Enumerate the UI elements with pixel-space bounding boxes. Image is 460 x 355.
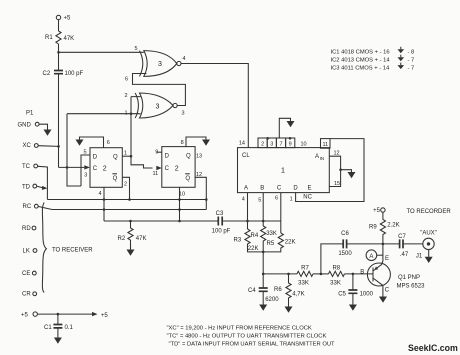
svg-text:J1: J1 bbox=[416, 254, 423, 260]
node junction R1/C2/gate input bbox=[57, 51, 60, 54]
svg-text:15: 15 bbox=[334, 181, 340, 187]
svg-text:C7: C7 bbox=[398, 234, 406, 240]
node R3/R5 tie bbox=[262, 251, 265, 254]
wire to gate U3a pin 5 bbox=[59, 51, 144, 53]
ground at C4 bbox=[262, 303, 264, 305]
svg-text:1: 1 bbox=[125, 111, 128, 117]
svg-text:MPS 6523: MPS 6523 bbox=[397, 283, 426, 289]
FF2 clock arrow bbox=[156, 166, 162, 170]
wire FF1 pin 6 to ground bbox=[80, 137, 104, 148]
svg-text:Q1 PNP: Q1 PNP bbox=[398, 275, 420, 281]
svg-text:A: A bbox=[315, 154, 319, 160]
transistor Q1 PNP MPS 6523 bbox=[360, 244, 425, 296]
wire pin 11 loop to NC pin 1 bbox=[296, 139, 364, 202]
ground at FF2 pin 8 bbox=[202, 140, 210, 146]
svg-text:3: 3 bbox=[84, 172, 87, 178]
svg-text:2: 2 bbox=[125, 93, 128, 99]
wire IC top ground bracket bbox=[279, 118, 290, 138]
svg-text:100 pF: 100 pF bbox=[65, 71, 84, 77]
wire C6 to emitter node bbox=[347, 243, 383, 245]
connector pin LK bbox=[23, 249, 37, 255]
svg-text:R6: R6 bbox=[274, 287, 282, 293]
jack J1 AUX bbox=[416, 231, 437, 260]
wire IC pin 4 column to R3 bbox=[247, 193, 249, 229]
wire U3b input stubs bbox=[131, 97, 141, 114]
wire FF2 pin 10 column bbox=[179, 187, 181, 221]
svg-text:100 pF: 100 pF bbox=[212, 229, 231, 235]
svg-text:GND: GND bbox=[18, 122, 32, 128]
svg-text:.47: .47 bbox=[400, 252, 409, 258]
wire gate input column to FF1 Q bbox=[131, 97, 153, 168]
svg-text:5: 5 bbox=[258, 197, 261, 203]
svg-text:R2: R2 bbox=[118, 236, 126, 242]
svg-text:B: B bbox=[260, 186, 264, 192]
node dots bottom bus bbox=[262, 273, 354, 276]
wire R5 bottom to R4 column bbox=[263, 249, 281, 252]
svg-text:4,7K: 4,7K bbox=[292, 291, 304, 297]
pin boxes 2 3 7 9 on IC top bbox=[258, 138, 295, 148]
IC U1 counter 4018 bbox=[238, 148, 330, 193]
svg-text:TO RECEIVER: TO RECEIVER bbox=[52, 247, 93, 253]
wire FF1 Q output stub bbox=[122, 155, 131, 157]
wire FF1 pin 4 column bbox=[103, 187, 105, 221]
resistor R4 33K bbox=[251, 226, 277, 242]
node XC junction bbox=[57, 145, 60, 148]
ground at C1 bbox=[54, 338, 62, 344]
svg-text:10: 10 bbox=[300, 142, 306, 148]
wire FF1 Qbar to bus A bbox=[122, 177, 129, 199]
svg-text:P1: P1 bbox=[26, 111, 34, 117]
svg-text:Q: Q bbox=[185, 176, 190, 182]
NOR gate U3b (IC3) bbox=[135, 93, 177, 118]
wire IC pin 6 column to R5 bbox=[280, 193, 282, 233]
wire IC pin 5 column to R4 bbox=[262, 193, 264, 226]
flip-flop IC2b (FF2) bbox=[162, 147, 195, 188]
svg-text:11: 11 bbox=[322, 142, 328, 148]
svg-text:TC: TC bbox=[22, 164, 31, 170]
svg-text:"TD" = DATA INPUT FROM UART S: "TD" = DATA INPUT FROM UART SERIAL TRANS… bbox=[169, 341, 336, 347]
ground at FF1 pin 6 bbox=[76, 140, 84, 146]
svg-text:- 7: - 7 bbox=[408, 65, 415, 71]
wire gate U3b input tie line bbox=[67, 113, 131, 115]
svg-text:1000: 1000 bbox=[360, 291, 374, 297]
svg-text:"TC" = 4800 - Hz OUTPUT TO UA: "TC" = 4800 - Hz OUTPUT TO UART TRANSMIT… bbox=[167, 333, 327, 339]
wire gate tie vertical bbox=[67, 114, 81, 186]
svg-text:6: 6 bbox=[125, 77, 128, 83]
svg-text:33K: 33K bbox=[330, 281, 341, 287]
bus A junction dots bbox=[103, 198, 208, 201]
svg-text:+5: +5 bbox=[373, 208, 381, 214]
svg-text:C6: C6 bbox=[341, 231, 349, 237]
wire XC to clock rail bbox=[39, 145, 59, 148]
svg-text:22K: 22K bbox=[248, 246, 259, 252]
svg-text:"XC" = 19,200 - Hz INPUT FRO: "XC" = 19,200 - Hz INPUT FROM REFERENCE … bbox=[167, 326, 312, 332]
svg-text:14: 14 bbox=[239, 140, 245, 146]
wire FF1 D column bbox=[81, 155, 90, 186]
FF1 clock arrow bbox=[84, 165, 90, 169]
svg-text:4: 4 bbox=[183, 56, 186, 62]
ground glyphs in notes bbox=[398, 47, 405, 69]
svg-text:5: 5 bbox=[83, 150, 86, 156]
svg-text:D: D bbox=[293, 186, 298, 192]
svg-text:4: 4 bbox=[98, 191, 101, 197]
+5 rail bottom left bbox=[21, 312, 108, 319]
svg-text:3: 3 bbox=[156, 104, 160, 111]
node C1 tap bbox=[57, 313, 60, 316]
svg-text:4: 4 bbox=[242, 197, 245, 203]
svg-text:9: 9 bbox=[289, 142, 292, 148]
capacitor C5 1000 bbox=[338, 274, 373, 303]
svg-text:R5: R5 bbox=[267, 241, 275, 247]
capacitor C4 6200 bbox=[248, 274, 279, 303]
svg-text:- 8: - 8 bbox=[408, 50, 415, 56]
svg-text:C1: C1 bbox=[44, 325, 52, 331]
svg-text:R7: R7 bbox=[301, 266, 309, 272]
FF1 pin labels 5 3 6 1 2 4 bbox=[83, 140, 127, 197]
svg-text:C: C bbox=[385, 287, 390, 293]
svg-text:3: 3 bbox=[182, 111, 185, 117]
capacitor C1 0.1 bbox=[44, 314, 74, 337]
svg-text:TO RECORDER: TO RECORDER bbox=[407, 209, 452, 215]
wire C6 branch bbox=[321, 244, 343, 274]
resistor R7 33K bbox=[297, 266, 313, 287]
capacitor C3 100 pF bbox=[212, 211, 231, 235]
svg-text:C: C bbox=[277, 186, 282, 192]
flip-flop IC2a (FF1) bbox=[90, 148, 122, 188]
svg-text:2: 2 bbox=[124, 181, 127, 187]
svg-text:7: 7 bbox=[279, 142, 282, 148]
bus A data line bbox=[47, 199, 206, 201]
svg-text:1500: 1500 bbox=[338, 251, 352, 257]
svg-text:IC3 4011 CMOS + - 14: IC3 4011 CMOS + - 14 bbox=[331, 65, 390, 71]
svg-text:1: 1 bbox=[281, 166, 285, 175]
svg-text:3: 3 bbox=[158, 61, 162, 68]
connector pin GND bbox=[18, 122, 40, 128]
ground at jack J1 bbox=[428, 250, 430, 257]
svg-text:E: E bbox=[385, 256, 389, 262]
svg-text:22K: 22K bbox=[285, 240, 296, 246]
svg-text:+5: +5 bbox=[101, 313, 109, 319]
node A_IN tie bbox=[339, 168, 342, 171]
connector pin CR bbox=[22, 292, 37, 298]
svg-text:C2: C2 bbox=[43, 71, 51, 77]
svg-text:6200: 6200 bbox=[265, 297, 279, 303]
svg-text:CL: CL bbox=[242, 153, 250, 159]
svg-text:"AUX": "AUX" bbox=[420, 231, 437, 237]
bus RC junction dots bbox=[103, 208, 181, 211]
wire +5 to R1 bbox=[58, 20, 60, 31]
wire R4 column to bottom bus bbox=[262, 242, 264, 274]
bus C3 coupling line bbox=[104, 220, 281, 222]
bottom bus analog bbox=[263, 273, 297, 275]
svg-text:RC: RC bbox=[23, 204, 32, 210]
wire TD with arrow to data column bbox=[37, 186, 43, 187]
ground at C5 bbox=[352, 303, 354, 305]
resistor R1 47K bbox=[45, 31, 74, 44]
svg-text:A: A bbox=[369, 254, 373, 260]
svg-text:B: B bbox=[360, 269, 364, 275]
svg-text:E: E bbox=[307, 186, 311, 192]
svg-text:R9: R9 bbox=[369, 225, 377, 231]
ground at R2 bbox=[130, 244, 132, 250]
bus C3 junction dots bbox=[129, 220, 264, 223]
svg-text:11: 11 bbox=[152, 171, 158, 177]
svg-text:C5: C5 bbox=[338, 291, 346, 297]
svg-text:2: 2 bbox=[103, 166, 107, 173]
svg-text:3: 3 bbox=[270, 142, 273, 148]
wire C2 down to XC node bbox=[58, 74, 60, 168]
ground at R6 bbox=[288, 305, 290, 307]
svg-text:6: 6 bbox=[107, 140, 110, 146]
svg-text:13: 13 bbox=[196, 154, 202, 160]
svg-text:0.1: 0.1 bbox=[65, 325, 74, 331]
wire FF2 D stub bbox=[157, 151, 162, 153]
node gate pins 1-2 tie bbox=[130, 112, 133, 115]
svg-text:IN: IN bbox=[320, 156, 325, 161]
svg-text:Q: Q bbox=[186, 154, 191, 160]
wire R1 to C2 bbox=[58, 44, 60, 71]
svg-text:A: A bbox=[244, 186, 248, 192]
connector pin RD bbox=[22, 226, 36, 232]
bottom notes bbox=[167, 326, 336, 348]
svg-text:+5: +5 bbox=[21, 313, 29, 319]
bus RC line bbox=[52, 209, 206, 211]
svg-text:R4: R4 bbox=[251, 233, 259, 239]
capacitor C7 .47 bbox=[383, 234, 423, 258]
node oscillator tie bbox=[66, 166, 69, 169]
svg-text:C: C bbox=[165, 166, 170, 172]
connector pin TD bbox=[22, 184, 37, 190]
svg-text:C4: C4 bbox=[248, 288, 256, 294]
svg-text:D: D bbox=[93, 155, 98, 161]
capacitor C6 1500 bbox=[338, 231, 352, 257]
svg-text:CE: CE bbox=[22, 271, 30, 277]
+5 supply terminal top bbox=[56, 15, 71, 21]
wire FF2 pin 8 to ground bbox=[186, 137, 206, 147]
wire TC to data column bbox=[38, 166, 48, 199]
FF2 pin labels 9 11 8 13 12 10 bbox=[152, 140, 202, 198]
svg-text:XC: XC bbox=[23, 143, 32, 149]
wire clock line to FF1 C input bbox=[59, 166, 85, 168]
svg-text:2: 2 bbox=[175, 166, 179, 173]
node emitter junction bbox=[382, 243, 385, 246]
svg-text:33K: 33K bbox=[298, 281, 309, 287]
svg-text:Q: Q bbox=[113, 155, 118, 161]
svg-text:D: D bbox=[165, 154, 170, 160]
svg-text:RD: RD bbox=[22, 226, 31, 232]
svg-text:TD: TD bbox=[22, 184, 31, 190]
brace TO RECEIVER bbox=[42, 203, 93, 293]
svg-text:SeekIC.com: SeekIC.com bbox=[408, 343, 458, 353]
pin 11 box bbox=[321, 139, 331, 149]
bottom pin labels 4 5 6 1 bbox=[242, 195, 293, 203]
resistor R2 47K bbox=[118, 221, 147, 248]
svg-text:2: 2 bbox=[261, 142, 264, 148]
svg-text:C: C bbox=[93, 166, 98, 172]
resistor R9 2.2K bbox=[369, 212, 400, 244]
connector pin TC bbox=[22, 164, 38, 170]
ground at A_IN network bbox=[348, 172, 356, 178]
svg-text:- 7: - 7 bbox=[408, 57, 415, 63]
ground at GND pin bbox=[44, 130, 52, 136]
svg-text:47K: 47K bbox=[136, 236, 147, 242]
resistor R3 22K bbox=[234, 229, 259, 252]
svg-text:R1: R1 bbox=[45, 35, 53, 41]
resistor R6 4,7K bbox=[274, 274, 305, 305]
svg-text:C3: C3 bbox=[216, 211, 224, 217]
connector pin XC bbox=[23, 143, 39, 149]
svg-text:NC: NC bbox=[303, 195, 312, 201]
wire RC to bus bbox=[39, 207, 53, 210]
wire R7 to R8 bbox=[313, 273, 329, 275]
connector pin RC bbox=[23, 204, 39, 210]
svg-text:33K: 33K bbox=[266, 231, 277, 237]
svg-text:1: 1 bbox=[290, 197, 293, 203]
resistor R5 22K bbox=[267, 233, 296, 249]
node dots on pin boxes bbox=[266, 137, 291, 140]
svg-text:2.2K: 2.2K bbox=[387, 222, 399, 228]
ground at IC top bbox=[287, 121, 295, 127]
NOR gate U3a (IC3) bbox=[140, 51, 181, 77]
ground at Q1 collector bbox=[382, 296, 384, 297]
resistor R8 33K bbox=[329, 266, 345, 287]
svg-text:LK: LK bbox=[23, 249, 30, 255]
svg-text:IC2 4013 CMOS + - 14: IC2 4013 CMOS + - 14 bbox=[331, 57, 391, 63]
svg-text:R8: R8 bbox=[332, 266, 340, 272]
svg-text:IC1 4018 CMOS + - 16: IC1 4018 CMOS + - 16 bbox=[331, 50, 390, 56]
svg-text:6: 6 bbox=[275, 195, 278, 201]
wire R3 bottom to R4 column bbox=[248, 245, 264, 252]
svg-text:Q: Q bbox=[113, 176, 118, 182]
svg-text:47K: 47K bbox=[64, 36, 75, 42]
wire A_IN pin 12 to pin 15 tie bbox=[329, 156, 340, 186]
svg-text:R3: R3 bbox=[234, 238, 242, 244]
wire U3a output to IC1 CL pin 14 bbox=[181, 64, 248, 148]
wire FF2 Qbar to RC bus bbox=[195, 177, 206, 209]
IC power notes bbox=[331, 50, 415, 72]
svg-text:5: 5 bbox=[135, 46, 138, 52]
wire U3b output feedback loop to U3a pin 6 bbox=[133, 74, 186, 106]
svg-text:9: 9 bbox=[155, 150, 158, 156]
wire GND pin to ground bbox=[39, 124, 47, 129]
capacitor C2 100 pF bbox=[43, 71, 84, 78]
+5 terminal at R9 bbox=[373, 208, 385, 214]
node FF1 Q junction bbox=[130, 155, 133, 158]
wire tie to ground bbox=[341, 170, 352, 172]
svg-text:+5: +5 bbox=[64, 16, 72, 22]
svg-text:CR: CR bbox=[22, 292, 31, 298]
wire R8 to Q1 base bbox=[345, 273, 374, 275]
svg-text:8: 8 bbox=[181, 140, 184, 146]
connector pin CE bbox=[22, 271, 36, 277]
node A marker bbox=[366, 250, 383, 261]
